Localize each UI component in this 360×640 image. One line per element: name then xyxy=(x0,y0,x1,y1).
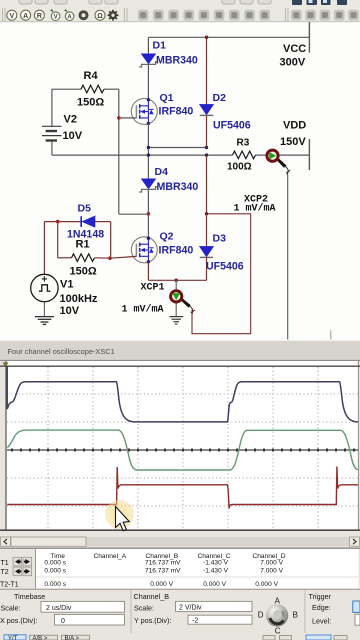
battery V2 xyxy=(42,89,83,155)
svg-text:IRF840: IRF840 xyxy=(159,245,194,257)
svg-text:D5: D5 xyxy=(78,203,92,215)
svg-text:10V: 10V xyxy=(63,130,83,142)
wire Q2 source to bottom rail xyxy=(147,262,149,281)
wire D4 to Q2 drain xyxy=(147,189,149,238)
svg-text:D3: D3 xyxy=(213,233,227,245)
svg-text:A/B >: A/B > xyxy=(33,636,48,640)
svg-text:100Ω: 100Ω xyxy=(227,162,252,173)
gear icon xyxy=(108,10,119,21)
node dots D5/R1 xyxy=(56,220,112,260)
wire ladder upper (Q1 source to D2) xyxy=(148,147,206,149)
svg-text:0.000 V: 0.000 V xyxy=(255,581,278,588)
svg-text:2 V/Div: 2 V/Div xyxy=(179,605,202,612)
svg-text:Scale:: Scale: xyxy=(1,604,21,613)
svg-text:-1.430 V: -1.430 V xyxy=(203,560,229,567)
bottom cut-off buttons xyxy=(4,635,347,640)
svg-text:A: A xyxy=(275,597,281,606)
svg-text:Edge:: Edge: xyxy=(312,603,331,612)
svg-text:150Ω: 150Ω xyxy=(77,97,104,109)
resistor R3 xyxy=(227,138,256,173)
svg-text:C: C xyxy=(275,626,281,635)
svg-text:10V: 10V xyxy=(60,305,80,317)
node dots on ladder xyxy=(147,146,209,157)
plot area xyxy=(7,361,359,531)
svg-text:D: D xyxy=(258,611,264,620)
svg-text:7.000 V: 7.000 V xyxy=(260,560,283,567)
svg-text:Channel_B: Channel_B xyxy=(134,592,170,601)
resistor R1 xyxy=(58,222,111,278)
wire D5 right leg down xyxy=(110,222,112,259)
svg-text:Trigger: Trigger xyxy=(309,592,332,601)
svg-text:716.737 mV: 716.737 mV xyxy=(145,567,181,574)
cursor marker top-left xyxy=(3,363,9,368)
channel knob xyxy=(258,597,298,636)
node dot bottom rail / ground branch xyxy=(174,279,178,283)
diode D5 1N4148 xyxy=(44,203,110,241)
wire D1 to Q1 drain xyxy=(147,64,149,100)
diode D1 MBR340 xyxy=(139,40,198,68)
wire hidden instrument lead xyxy=(330,330,332,339)
svg-text:V2: V2 xyxy=(64,114,77,126)
axis xyxy=(7,449,358,451)
wire XCP1 output to node B xyxy=(192,214,251,334)
wire VCC top rail xyxy=(148,36,309,38)
svg-text:XCP1: XCP1 xyxy=(141,283,165,294)
svg-text:IRF840: IRF840 xyxy=(159,106,194,118)
transistor Q1 IRF840 xyxy=(131,92,193,125)
node A (D4/Q2 junction with V2 return) xyxy=(147,212,151,216)
svg-text:A: A xyxy=(67,15,72,21)
separators xyxy=(3,8,289,21)
svg-text:VCC: VCC xyxy=(283,43,306,55)
svg-text:X pos.(Div):: X pos.(Div): xyxy=(0,616,38,625)
svg-text:-2: -2 xyxy=(192,617,198,624)
T labels and nudge buttons xyxy=(0,560,19,589)
source V1 xyxy=(31,222,98,317)
svg-text:0.000 V: 0.000 V xyxy=(150,581,173,588)
svg-text:100kHz: 100kHz xyxy=(60,293,98,305)
wire Q1 gate xyxy=(119,117,137,119)
svg-text:R1: R1 xyxy=(76,239,90,251)
svg-text:R: R xyxy=(37,13,42,20)
transistor Q2 IRF840 xyxy=(131,231,193,264)
svg-text:T2: T2 xyxy=(1,569,9,576)
resistor R4 xyxy=(52,70,119,109)
current probe XCP2 xyxy=(234,150,291,214)
diode D4 MBR340 xyxy=(139,166,198,193)
readout table xyxy=(0,547,360,549)
ground (under XCP1) xyxy=(170,317,184,324)
power symbol VDD xyxy=(280,120,309,171)
svg-text:MBR340: MBR340 xyxy=(157,181,199,193)
gray square icon row xyxy=(138,10,359,21)
wire ground branch xyxy=(175,280,177,316)
svg-text:D4: D4 xyxy=(155,166,169,178)
svg-text:B: B xyxy=(293,611,298,620)
svg-text:T2-T1: T2-T1 xyxy=(0,581,19,588)
svg-text:Level:: Level: xyxy=(312,616,331,625)
svg-text:R4: R4 xyxy=(84,70,99,82)
wire V2 return to node A xyxy=(119,89,149,214)
current probe XCP1 xyxy=(122,283,196,316)
svg-text:Y/T: Y/T xyxy=(8,636,18,640)
wire Q1 source down through ladder xyxy=(147,123,149,178)
svg-text:Q1: Q1 xyxy=(160,92,174,104)
bottom control panel xyxy=(0,588,360,590)
svg-text:Ω: Ω xyxy=(97,13,103,20)
svg-text:R3: R3 xyxy=(237,138,250,149)
svg-text:2 us/Div: 2 us/Div xyxy=(46,605,72,612)
svg-text:Scale:: Scale: xyxy=(134,604,154,613)
svg-text:Channel_A: Channel_A xyxy=(94,553,127,560)
svg-text:V: V xyxy=(9,13,14,20)
waveform channel B (green) xyxy=(7,430,358,470)
svg-text:716.737 mV: 716.737 mV xyxy=(145,560,181,567)
svg-text:150V: 150V xyxy=(280,136,306,148)
grid xyxy=(7,367,358,530)
svg-text:300V: 300V xyxy=(280,57,306,69)
svg-text:V: V xyxy=(54,15,58,21)
scrollbar xyxy=(0,537,360,547)
node B dot (D2/D3 midpoint) xyxy=(205,212,208,215)
svg-text:UF5406: UF5406 xyxy=(213,120,251,132)
probe circle icons xyxy=(7,10,105,20)
svg-text:VDD: VDD xyxy=(283,120,306,132)
svg-text:7.000 V: 7.000 V xyxy=(260,567,283,574)
svg-text:1 mV/mA: 1 mV/mA xyxy=(234,203,276,215)
wire top rail to D1 xyxy=(147,37,149,54)
node dot Q1 gate xyxy=(117,116,121,120)
svg-text:0: 0 xyxy=(61,618,65,625)
mouse highlight + cursor xyxy=(105,500,134,529)
node dot VCC rail / D2 xyxy=(205,36,209,40)
svg-text:Y pos.(Div):: Y pos.(Div): xyxy=(134,616,171,625)
svg-text:0.000 s: 0.000 s xyxy=(44,560,66,567)
svg-text:MBR340: MBR340 xyxy=(156,55,198,67)
diode D3 UF5406 xyxy=(200,155,244,280)
svg-text:1 mV/mA: 1 mV/mA xyxy=(122,304,164,316)
waveform channel C (red) xyxy=(7,467,358,509)
svg-text:UF5406: UF5406 xyxy=(206,260,244,272)
svg-text:0.000 s: 0.000 s xyxy=(44,581,66,588)
svg-text:150Ω: 150Ω xyxy=(70,266,97,278)
svg-text:V1: V1 xyxy=(60,279,73,291)
wire bottom rail xyxy=(148,279,206,281)
diode D2 UF5406 xyxy=(200,37,251,147)
svg-text:0.000 s: 0.000 s xyxy=(44,567,66,574)
svg-text:Timebase: Timebase xyxy=(14,592,45,601)
svg-text:T1: T1 xyxy=(1,560,9,567)
waveform channel A (blue) xyxy=(7,367,358,422)
power symbol VCC xyxy=(280,22,310,69)
wire XCP2 output to scope xyxy=(287,175,289,340)
ground (under V1) xyxy=(35,317,54,325)
svg-text:B/A >: B/A > xyxy=(65,636,80,640)
wire ladder lower (V2 minus rail to VDD) xyxy=(52,154,310,156)
top partial button row xyxy=(19,0,271,4)
svg-text:D1: D1 xyxy=(153,40,167,52)
svg-text:D2: D2 xyxy=(213,92,227,104)
svg-text:0.000 V: 0.000 V xyxy=(203,581,226,588)
svg-text:Four channel oscilloscope-XSC1: Four channel oscilloscope-XSC1 xyxy=(8,347,115,356)
svg-text:A: A xyxy=(23,13,28,20)
svg-text:Q2: Q2 xyxy=(160,231,174,243)
svg-text:-1.430 V: -1.430 V xyxy=(203,567,229,574)
wire Q2 gate xyxy=(110,256,136,258)
